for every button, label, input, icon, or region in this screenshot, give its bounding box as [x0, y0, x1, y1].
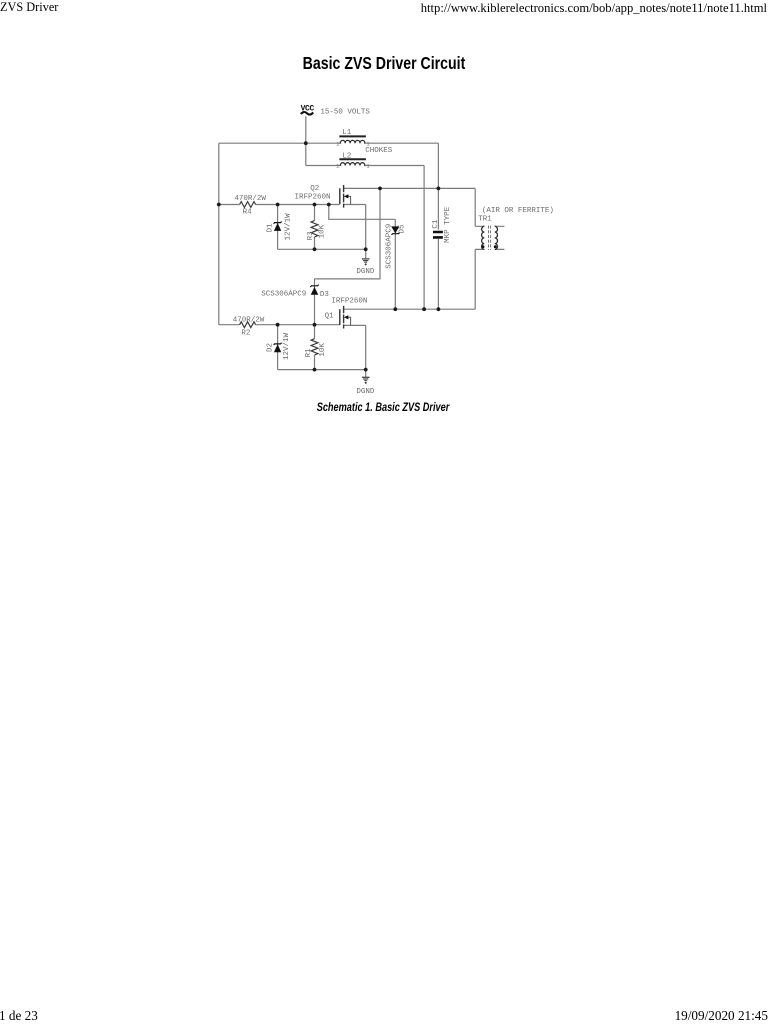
svg-text:D3: D3	[320, 291, 330, 299]
svg-text:IRFP260N: IRFP260N	[331, 297, 367, 305]
svg-text:Q1: Q1	[325, 313, 335, 321]
svg-text:VCC: VCC	[301, 105, 315, 114]
svg-text:MKP TYPE: MKP TYPE	[444, 206, 452, 243]
svg-text:R3: R3	[307, 231, 315, 241]
svg-text:(AIR OR FERRITE): (AIR OR FERRITE)	[482, 207, 554, 215]
svg-text:Q2: Q2	[310, 185, 319, 193]
svg-text:10K: 10K	[319, 343, 327, 357]
svg-text:D5: D5	[398, 224, 406, 234]
svg-text:SCS306APC9: SCS306APC9	[386, 224, 394, 269]
svg-text:12V/1W: 12V/1W	[283, 333, 291, 361]
svg-text:15-50 VOLTS: 15-50 VOLTS	[320, 109, 370, 117]
svg-text:470R/2W: 470R/2W	[233, 316, 265, 324]
svg-text:1: 1	[336, 140, 340, 147]
svg-text:12V/1W: 12V/1W	[284, 213, 292, 241]
svg-text:L1: L1	[342, 129, 352, 137]
svg-text:R1: R1	[305, 348, 313, 358]
svg-text:D1: D1	[267, 223, 275, 233]
svg-text:R4: R4	[243, 208, 253, 216]
svg-text:470R/2W: 470R/2W	[234, 195, 266, 203]
svg-text:1: 1	[366, 140, 370, 147]
svg-text:1: 1	[336, 163, 340, 170]
svg-text:1: 1	[366, 163, 370, 170]
svg-text:CHOKES: CHOKES	[365, 147, 393, 155]
svg-text:10K: 10K	[318, 224, 326, 238]
svg-text:C1: C1	[432, 219, 440, 229]
svg-text:TR1: TR1	[478, 216, 492, 224]
svg-text:SCS306APC9: SCS306APC9	[261, 291, 306, 299]
svg-text:D2: D2	[266, 343, 274, 352]
svg-text:DGND: DGND	[356, 388, 375, 396]
svg-text:IRFP260N: IRFP260N	[295, 194, 331, 202]
svg-text:DGND: DGND	[356, 268, 375, 276]
svg-text:R2: R2	[241, 329, 250, 337]
svg-text:L2: L2	[342, 152, 351, 160]
